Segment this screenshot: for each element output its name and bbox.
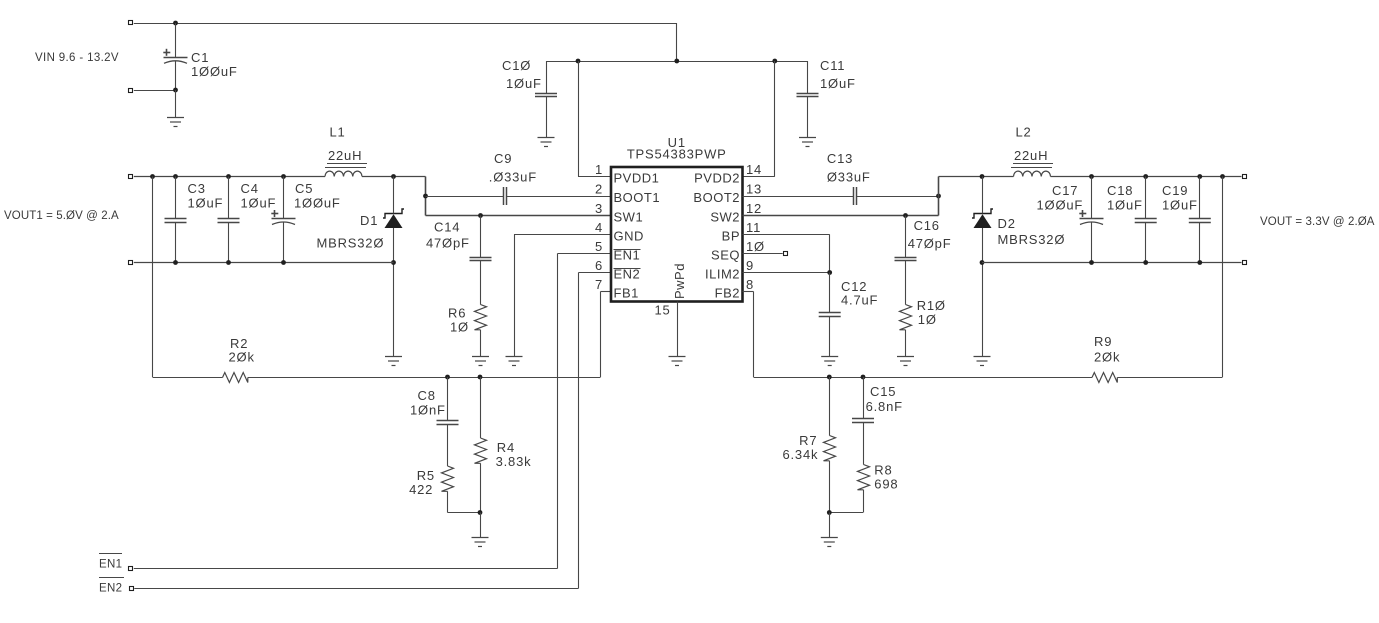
wire VOUT2 bottom rail — [982, 262, 1242, 264]
ground C11 — [799, 138, 816, 147]
junction SW2 / C16 — [903, 213, 908, 218]
wire EN1 net — [558, 253, 612, 255]
svg-text:22uH: 22uH — [1014, 148, 1048, 163]
svg-text:4.7uF: 4.7uF — [841, 293, 878, 308]
svg-text:5: 5 — [595, 239, 603, 254]
wire FB1 horizontal — [153, 377, 223, 379]
svg-text:4: 4 — [595, 220, 603, 235]
svg-text:C18: C18 — [1107, 183, 1133, 198]
junction FB2 / C15 — [861, 375, 866, 380]
wire BOOT1 right segment to pin 2 — [507, 196, 611, 198]
resistor R2 — [223, 336, 255, 383]
junction PVDD bus / PVDD1 — [576, 59, 581, 64]
svg-text:1ØuF: 1ØuF — [1162, 198, 1198, 213]
svg-text:R7: R7 — [799, 433, 817, 448]
ground U1 GND — [506, 357, 523, 366]
svg-text:1ØØuF: 1ØØuF — [1037, 198, 1084, 213]
svg-text:.Ø33uF: .Ø33uF — [489, 170, 537, 185]
junction C3 bottom — [173, 260, 178, 265]
svg-text:D2: D2 — [998, 216, 1016, 231]
svg-text:MBRS32Ø: MBRS32Ø — [998, 232, 1066, 247]
diode D1 Schottky — [317, 209, 405, 251]
U1 pin 15 PwPd to ground — [654, 302, 677, 357]
junction C4 top — [226, 174, 231, 179]
U1 pin 9 ILIM2 — [705, 258, 754, 282]
wire R9 to VOUT2 tap — [1117, 377, 1222, 379]
svg-text:BP: BP — [722, 229, 740, 244]
svg-text:VIN 9.6 - 13.2V: VIN 9.6 - 13.2V — [35, 52, 119, 64]
wire C12 to ground — [829, 316, 831, 356]
svg-text:1ØnF: 1ØnF — [410, 403, 446, 418]
junction C5 top — [281, 174, 286, 179]
svg-text:C13: C13 — [827, 151, 853, 166]
U1 pin 12 SW2 — [710, 201, 762, 225]
junction PVDD bus / PVDD2 — [772, 59, 777, 64]
svg-text:1: 1 — [595, 162, 603, 177]
junction C19 top — [1197, 174, 1202, 179]
svg-text:C16: C16 — [914, 218, 940, 233]
wire VIN- to C1 — [134, 90, 176, 92]
wire C11 to ground — [807, 97, 809, 138]
U1 pin 11 BP — [722, 220, 761, 244]
net label EN2 — [99, 578, 124, 595]
resistor R4 — [475, 377, 532, 513]
capacitor C12 — [819, 273, 879, 317]
svg-text:VOUT = 3.3V @ 2.ØA: VOUT = 3.3V @ 2.ØA — [1260, 216, 1375, 228]
capacitor C17 (polarized) — [1037, 177, 1104, 263]
svg-text:8: 8 — [746, 277, 754, 292]
svg-text:C9: C9 — [494, 151, 512, 166]
svg-text:1ØØuF: 1ØØuF — [191, 64, 238, 79]
junction BP / ILIM2 / C12 — [827, 270, 832, 275]
wire PVDD2 vertical to pin 14 — [774, 61, 776, 177]
svg-text:FB1: FB1 — [614, 286, 639, 301]
wire SW2 top rail — [939, 176, 1014, 178]
wire SW2 node to D2 — [982, 177, 984, 214]
wire VOUT1 feedback vertical — [152, 177, 154, 378]
wire L2 to VOUT2 rail — [1051, 176, 1242, 178]
capacitor C14 — [426, 216, 492, 261]
capacitor C9 — [489, 151, 537, 205]
terminal SEQ — [784, 252, 788, 256]
svg-text:D1: D1 — [360, 213, 378, 228]
junction BOOT2 / SW2 corner — [936, 194, 941, 199]
junction D1 / VOUT1 bottom rail — [391, 260, 396, 265]
svg-text:R1Ø: R1Ø — [917, 298, 946, 313]
capacitor C19 — [1162, 177, 1211, 263]
wire R8 bottom to junction — [863, 490, 865, 513]
svg-text:SW2: SW2 — [710, 210, 740, 225]
junction D2 / VOUT2 bottom rail — [980, 260, 985, 265]
capacitor C8 — [410, 377, 459, 425]
svg-text:C17: C17 — [1052, 183, 1078, 198]
diode D2 Schottky — [972, 209, 1065, 247]
terminal EN2 — [130, 587, 134, 591]
terminal VOUT2- — [1243, 261, 1247, 265]
svg-text:15: 15 — [654, 303, 670, 318]
wire L1 to SW corner — [362, 176, 426, 178]
wire C10 to ground — [546, 97, 548, 138]
U1 pin 8 FB2 — [715, 277, 754, 301]
inductor L2 — [1011, 125, 1053, 177]
svg-text:C3: C3 — [188, 181, 206, 196]
wire D2 anode down — [982, 228, 984, 356]
junction C5 bottom — [281, 260, 286, 265]
svg-text:C4: C4 — [241, 181, 259, 196]
wire BP pin 11 — [743, 234, 830, 236]
junction VIN rail / C1 — [173, 21, 178, 26]
IC U1 TPS54383PWP body — [611, 135, 743, 302]
wire BOOT2 from pin 13 — [743, 196, 854, 198]
U1 pin 3 SW1 — [595, 201, 643, 225]
svg-text:L2: L2 — [1016, 125, 1032, 140]
U1 pin 1Ø SEQ — [711, 239, 765, 263]
wire PVDD bus — [546, 61, 808, 63]
junction FB1 / R4 — [478, 375, 483, 380]
svg-text:R8: R8 — [874, 463, 892, 478]
junction SW1 / C14 — [478, 213, 483, 218]
capacitor C11 — [797, 58, 856, 97]
svg-text:R6: R6 — [448, 306, 466, 321]
ground D1 — [385, 357, 402, 366]
wire FB2 from pin 8 — [743, 291, 754, 293]
capacitor C10 — [502, 58, 557, 97]
ground C10 — [538, 138, 555, 147]
wire VIN top rail — [134, 23, 677, 25]
U1 pin 13 BOOT2 — [693, 182, 762, 206]
svg-text:MBRS32Ø: MBRS32Ø — [317, 236, 385, 251]
svg-text:47ØpF: 47ØpF — [908, 236, 952, 251]
svg-text:SEQ: SEQ — [711, 248, 740, 263]
ground D2 — [974, 357, 991, 366]
wire EN2 net — [579, 272, 612, 274]
ground C1 — [167, 118, 184, 127]
wire C1 to ground — [175, 90, 177, 117]
svg-text:1Ø: 1Ø — [746, 239, 765, 254]
capacitor C4 — [218, 177, 277, 263]
ground C12 — [821, 357, 838, 366]
wire GND pin 4 — [514, 234, 611, 236]
svg-text:7: 7 — [595, 277, 603, 292]
svg-text:EN2: EN2 — [99, 583, 122, 595]
junction C3 top — [173, 174, 178, 179]
svg-text:47ØpF: 47ØpF — [426, 236, 470, 251]
wire VOUT1 bottom rail — [134, 262, 394, 264]
junction FB2 / R7 — [827, 375, 832, 380]
junction C18 bottom — [1143, 260, 1148, 265]
wire R2 to FB1 pin — [248, 377, 601, 379]
svg-text:R9: R9 — [1094, 334, 1112, 349]
wire BOOT1 left segment — [426, 196, 504, 198]
svg-text:C1: C1 — [191, 50, 209, 65]
wire FB2 horizontal — [754, 377, 1093, 379]
junction C17 bottom — [1089, 260, 1094, 265]
svg-text:ILIM2: ILIM2 — [705, 267, 740, 282]
svg-text:1ØuF: 1ØuF — [1107, 198, 1143, 213]
wire PVDD1 vertical to pin 1 — [578, 61, 580, 177]
junction C1 bottom — [173, 88, 178, 93]
svg-text:2Øk: 2Øk — [1094, 350, 1120, 365]
svg-text:3.83k: 3.83k — [496, 454, 532, 469]
svg-text:13: 13 — [746, 182, 762, 197]
wire R5 bottom to junction — [447, 491, 449, 512]
terminal EN1 — [129, 567, 133, 571]
junction C19 bottom — [1197, 260, 1202, 265]
ground U1 pin 15 — [669, 357, 686, 366]
svg-text:1ØØuF: 1ØØuF — [294, 196, 341, 211]
junction C4 bottom — [226, 260, 231, 265]
U1 pin 5 EN1 — [595, 239, 641, 263]
svg-text:9: 9 — [746, 258, 754, 273]
svg-text:22uH: 22uH — [328, 148, 362, 163]
junction VOUT1 / feedback tap — [150, 174, 155, 179]
svg-text:C14: C14 — [434, 220, 460, 235]
ground R4 — [472, 538, 489, 547]
capacitor C18 — [1107, 177, 1157, 263]
capacitor C3 — [165, 177, 224, 263]
svg-text:1Ø: 1Ø — [918, 312, 937, 327]
resistor R6 — [448, 261, 487, 335]
junction PVDD bus / VIN — [674, 59, 679, 64]
terminal VOUT2+ — [1243, 175, 1247, 179]
svg-text:C15: C15 — [870, 384, 896, 399]
ground R10 — [897, 357, 914, 366]
svg-text:PVDD2: PVDD2 — [694, 171, 740, 186]
svg-text:6.34k: 6.34k — [782, 447, 818, 462]
svg-text:1ØuF: 1ØuF — [820, 76, 856, 91]
resistor R8 — [858, 422, 899, 491]
svg-text:TPS54383PWP: TPS54383PWP — [627, 147, 727, 162]
capacitor C1 (polarized) — [163, 23, 237, 90]
svg-text:3: 3 — [595, 201, 603, 216]
svg-text:R4: R4 — [497, 440, 515, 455]
junction BOOT1 tap — [423, 194, 428, 199]
wire D1 anode down — [393, 228, 395, 356]
svg-text:C19: C19 — [1162, 183, 1188, 198]
svg-text:BOOT1: BOOT1 — [614, 190, 661, 205]
svg-text:6.8nF: 6.8nF — [866, 399, 903, 414]
wire R6 to ground — [480, 330, 482, 356]
U1 pin 14 PVDD2 — [694, 162, 762, 186]
junction SW1 node / D1 — [391, 174, 396, 179]
junction FB1 / C8 — [445, 375, 450, 380]
wire VOUT1 top rail — [134, 176, 325, 178]
ground R6 — [472, 357, 489, 366]
svg-text:2: 2 — [595, 182, 603, 197]
terminal VOUT1- — [129, 261, 133, 265]
terminal VOUT1+ — [129, 175, 133, 179]
net label EN1 — [99, 554, 122, 571]
svg-text:1ØuF: 1ØuF — [506, 76, 542, 91]
svg-text:EN1: EN1 — [99, 559, 122, 571]
svg-text:1ØuF: 1ØuF — [241, 196, 277, 211]
wire SEQ pin 10 — [743, 253, 783, 255]
resistor R7 — [782, 377, 835, 513]
svg-text:698: 698 — [874, 477, 898, 492]
svg-text:C1Ø: C1Ø — [502, 58, 531, 73]
wire VOUT2 feedback vertical — [1222, 177, 1224, 378]
wire SW2 from pin 12 — [743, 215, 939, 217]
resistor R5 — [409, 424, 453, 497]
wire R7 junction to ground — [829, 513, 831, 538]
svg-text:BOOT2: BOOT2 — [693, 190, 740, 205]
U1 pin 1 PVDD1 — [595, 162, 659, 186]
U1 pin 7 FB1 — [595, 277, 639, 301]
wire VIN drop to PVDD bus — [676, 23, 678, 61]
junction SW2 / D2 — [980, 174, 985, 179]
capacitor C16 — [895, 216, 952, 261]
wire ILIM2 pin 9 — [743, 272, 830, 274]
svg-text:12: 12 — [746, 201, 762, 216]
wire C13 to SW2 corner — [857, 196, 939, 198]
wire FB1 vertical from pin 7 — [601, 291, 612, 293]
U1 pin 4 GND — [595, 220, 644, 244]
svg-text:SW1: SW1 — [614, 210, 644, 225]
junction R5/R4 junction — [478, 510, 483, 515]
wire SW2 corner vertical — [938, 177, 940, 216]
terminal VIN+ — [129, 21, 133, 25]
junction C17 top — [1089, 174, 1094, 179]
svg-text:PVDD1: PVDD1 — [614, 171, 660, 186]
svg-text:1ØuF: 1ØuF — [188, 196, 224, 211]
svg-text:1Ø: 1Ø — [450, 320, 469, 335]
U1 pin 6 EN2 — [595, 258, 641, 282]
wire SW1 node to D1 — [393, 177, 395, 214]
junction C18 top — [1143, 174, 1148, 179]
terminal VIN- — [129, 89, 133, 93]
junction VOUT2 feedback tap — [1220, 174, 1225, 179]
svg-text:R5: R5 — [417, 468, 435, 483]
svg-text:PwPd: PwPd — [672, 263, 687, 299]
inductor L1 — [325, 125, 367, 177]
svg-text:C8: C8 — [418, 388, 436, 403]
svg-text:C5: C5 — [295, 181, 313, 196]
wire R10 to ground — [905, 330, 907, 356]
capacitor C5 (polarized) — [271, 177, 340, 263]
wire SW1 corner vertical — [425, 177, 427, 216]
svg-text:FB2: FB2 — [715, 286, 740, 301]
resistor R10 — [900, 261, 946, 330]
svg-text:6: 6 — [595, 258, 603, 273]
capacitor C13 — [827, 151, 871, 205]
svg-text:GND: GND — [614, 229, 644, 244]
svg-text:11: 11 — [746, 220, 761, 235]
svg-text:VOUT1 = 5.ØV @ 2.A: VOUT1 = 5.ØV @ 2.A — [4, 210, 119, 222]
wire R4 junction to ground — [480, 513, 482, 538]
svg-text:Ø33uF: Ø33uF — [827, 170, 871, 185]
ground R7 — [821, 538, 838, 547]
svg-text:2Øk: 2Øk — [229, 350, 255, 365]
svg-text:L1: L1 — [330, 125, 346, 140]
capacitor C15 — [852, 377, 903, 423]
junction R7/R8 junction — [827, 510, 832, 515]
U1 pin 2 BOOT1 — [595, 182, 660, 206]
resistor R9 — [1092, 334, 1120, 383]
svg-text:C11: C11 — [820, 58, 845, 73]
wire SW1 to pin 3 — [426, 215, 612, 217]
svg-text:14: 14 — [746, 162, 762, 177]
svg-text:422: 422 — [409, 482, 433, 497]
